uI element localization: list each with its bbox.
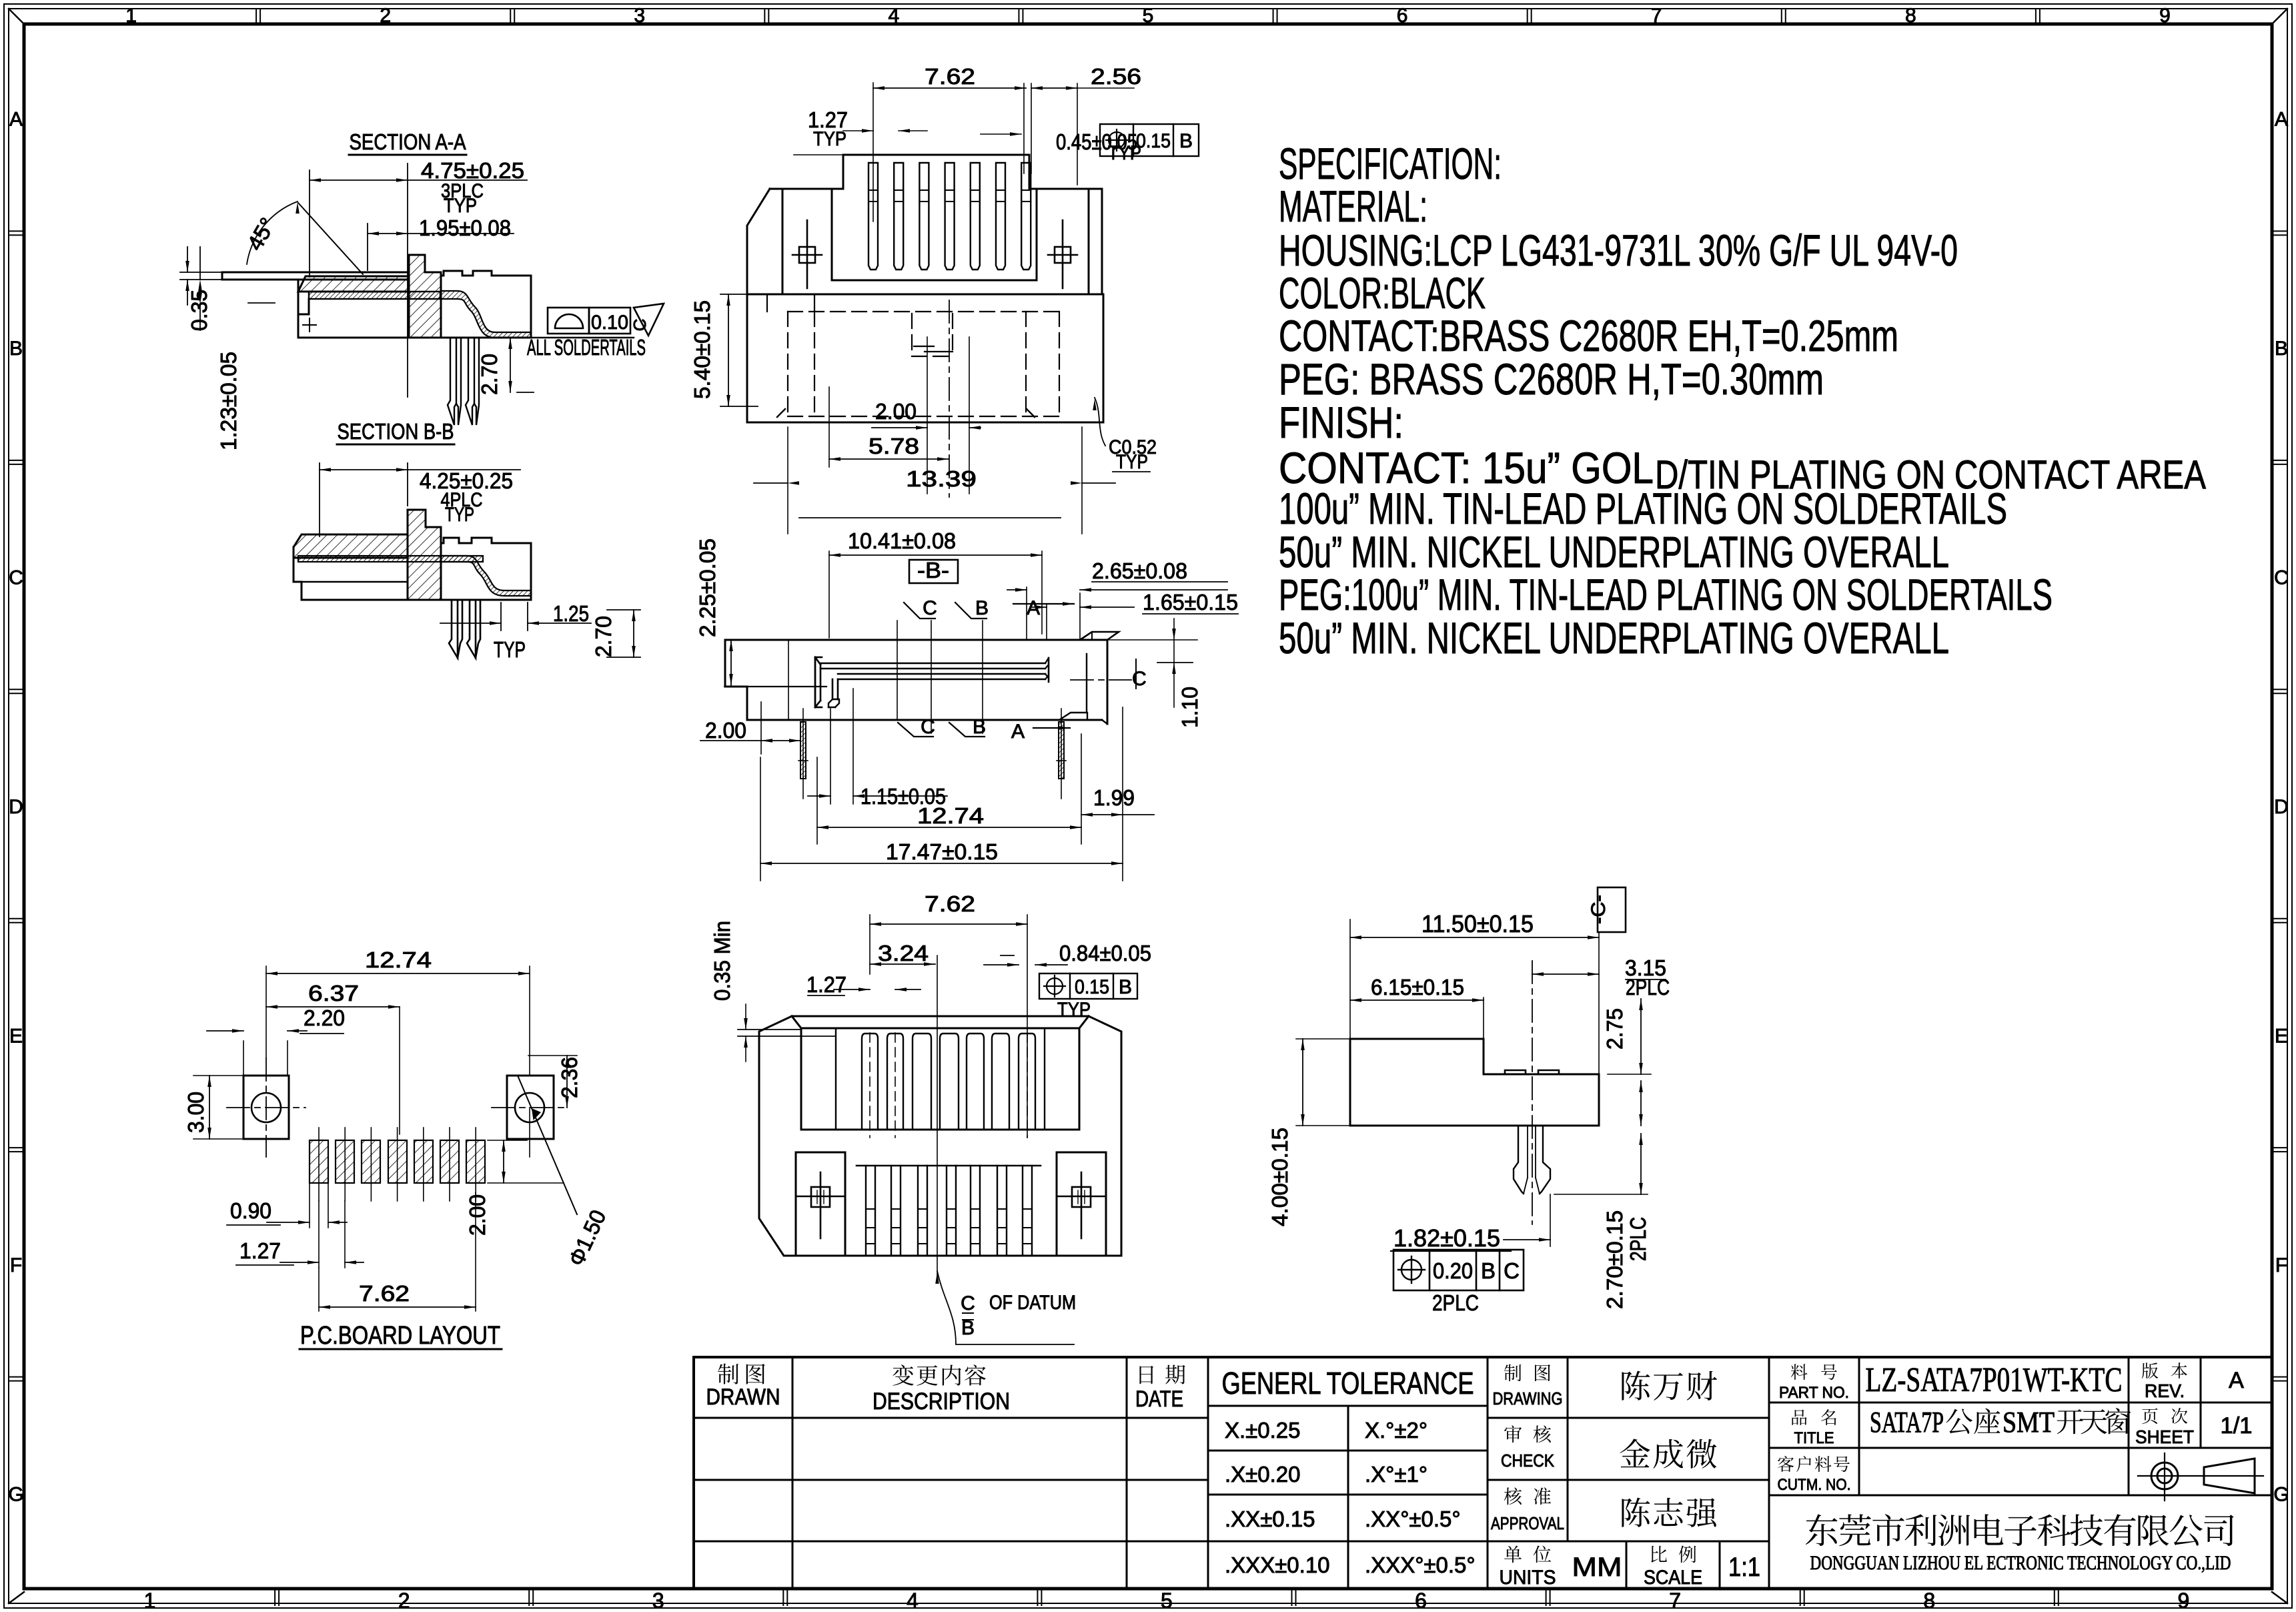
plan tongue upper rail — [820, 663, 1045, 665]
bottom view upper cavity — [800, 1028, 802, 1130]
drawing/check/approval/units labels — [1504, 1364, 1522, 1382]
svg-text:6.15±0.15: 6.15±0.15 — [1371, 975, 1464, 999]
svg-text:6: 6 — [1397, 5, 1408, 27]
svg-text:50u” MIN. NICKEL UNDERPLATI: 50u” MIN. NICKEL UNDERPLATING OVERALL — [1279, 527, 1949, 576]
dim 13.39 — [787, 427, 788, 534]
dim 6.37 — [266, 1006, 400, 1007]
section arrows top — [904, 602, 935, 619]
plan view outline — [725, 639, 1107, 641]
0.35 min lines — [738, 1029, 801, 1030]
dim 10.41 — [828, 551, 830, 638]
svg-text:1:1: 1:1 — [1728, 1553, 1760, 1582]
svg-text:0.15: 0.15 — [1075, 976, 1109, 998]
dim 5.78 — [828, 387, 830, 467]
dim 1.15 — [830, 709, 831, 804]
svg-text:GENERL TOLERANCE: GENERL TOLERANCE — [1222, 1366, 1474, 1400]
dim 0.45 — [981, 133, 1021, 135]
svg-text:B: B — [2275, 338, 2288, 360]
svg-text:C: C — [961, 1292, 975, 1314]
svg-text:10.41±0.08: 10.41±0.08 — [848, 528, 956, 553]
svg-text:.XXX°±0.5°: .XXX°±0.5° — [1365, 1553, 1476, 1577]
dim 7.62 pcb — [475, 1192, 476, 1311]
svg-text:1.65±0.15: 1.65±0.15 — [1143, 590, 1238, 615]
svg-text:0.20: 0.20 — [1433, 1258, 1473, 1283]
svg-text:DESCRIPTION: DESCRIPTION — [873, 1388, 1010, 1415]
svg-text:5.40±0.15: 5.40±0.15 — [690, 300, 714, 399]
svg-text:PEG: BRASS C2680R H,T=0.30m: PEG: BRASS C2680R H,T=0.30mm — [1279, 354, 1824, 404]
svg-text:X.°±2°: X.°±2° — [1365, 1418, 1427, 1443]
dim 0.35 — [180, 272, 222, 273]
dim 2.65 — [1026, 587, 1027, 639]
dim 12.74 plan — [816, 757, 818, 844]
title block outline — [694, 1357, 2272, 1589]
plan top-right bevel — [1080, 632, 1119, 640]
titleblock texts: DRAWN / DESCRIPTION / DATE — [718, 1364, 738, 1384]
svg-text:2.00: 2.00 — [465, 1194, 490, 1236]
svg-text:A: A — [2229, 1368, 2244, 1393]
dim 2.20 — [243, 1041, 244, 1076]
svg-text:6.37: 6.37 — [308, 981, 359, 1005]
svg-text:1.10: 1.10 — [1177, 687, 1202, 728]
side soldertail — [1514, 1126, 1524, 1194]
svg-text:0.35 Min: 0.35 Min — [710, 921, 734, 1001]
svg-text:C: C — [1504, 1258, 1520, 1283]
svg-text:PEG:100u” MIN. TIN-LEAD PLA: PEG:100u” MIN. TIN-LEAD PLATING ON SOLDE… — [1279, 570, 2053, 619]
svg-text:P.C.BOARD LAYOUT: P.C.BOARD LAYOUT — [300, 1322, 500, 1350]
centerline symbol — [1071, 679, 1131, 681]
svg-text:.XXX±0.10: .XXX±0.10 — [1225, 1553, 1330, 1577]
svg-text:50u” MIN. NICKEL UNDERPLATI: 50u” MIN. NICKEL UNDERPLATING OVERALL — [1279, 613, 1949, 663]
side bumps — [1505, 1070, 1526, 1074]
plan tongue left cap — [814, 657, 816, 707]
svg-text:TYP: TYP — [444, 195, 477, 217]
svg-text:E: E — [2275, 1025, 2288, 1047]
svg-text:8: 8 — [1905, 5, 1916, 27]
B-B S-curve contact — [441, 556, 531, 596]
svg-text:2.70: 2.70 — [477, 354, 502, 395]
front view bottom edge — [747, 294, 1102, 296]
dim 45 deg — [298, 203, 363, 274]
plan internal verticals — [788, 640, 789, 720]
svg-text:2.70±0.15: 2.70±0.15 — [1602, 1210, 1627, 1309]
svg-text:APPROVAL: APPROVAL — [1491, 1513, 1564, 1533]
bottom slots — [862, 1034, 878, 1130]
left wing box — [782, 189, 784, 294]
svg-text:D/TIN PLATING ON CONTACT A: D/TIN PLATING ON CONTACT AREA — [1655, 452, 2206, 497]
svg-text:4.00±0.15: 4.00±0.15 — [1267, 1128, 1292, 1226]
dim 3.24 — [870, 963, 935, 965]
svg-text:5: 5 — [1143, 5, 1154, 27]
center dash-dot line — [949, 300, 950, 497]
B-B contact blade hatched — [298, 556, 483, 562]
dim 2.00 plan — [760, 702, 762, 754]
dim 2.00 pcb — [488, 1182, 564, 1184]
dim 1.27 pcb — [318, 1201, 320, 1268]
svg-text:DRAWING: DRAWING — [1493, 1388, 1563, 1408]
dim 2.56 — [1031, 87, 1077, 89]
lower body rect — [747, 294, 1103, 422]
svg-text:4: 4 — [889, 5, 900, 27]
svg-text:2.70: 2.70 — [591, 616, 616, 657]
pcb right hole — [507, 1076, 554, 1139]
svg-text:TITLE: TITLE — [1794, 1429, 1834, 1447]
svg-text:2: 2 — [380, 5, 391, 27]
svg-text:MATERIAL:: MATERIAL: — [1279, 181, 1427, 231]
dim 7.62 bottom — [869, 915, 871, 974]
B-B center key hatched block — [408, 510, 441, 600]
dim 2.75 — [1640, 999, 1642, 1074]
dim 5.40 — [720, 294, 758, 295]
dim 12.74 pcb — [266, 973, 530, 974]
B-B left body hatched top — [294, 534, 408, 558]
svg-text:TYP: TYP — [1116, 451, 1148, 473]
svg-text:1.27: 1.27 — [239, 1238, 281, 1263]
svg-text:SCALE: SCALE — [1644, 1567, 1702, 1589]
svg-text:-C-: -C- — [1588, 895, 1610, 924]
A-A rear wall hatched block — [409, 255, 441, 338]
svg-text:SATA7P: SATA7P — [1870, 1406, 1944, 1439]
right wing box — [1036, 189, 1038, 280]
svg-text:B: B — [1119, 976, 1132, 998]
svg-text:C: C — [921, 716, 935, 738]
A-A contact strip hatched — [309, 292, 440, 299]
svg-text:B: B — [1481, 1258, 1496, 1283]
svg-text:13.39: 13.39 — [906, 466, 977, 491]
dia 1.50 leader — [518, 1076, 577, 1214]
svg-text:4: 4 — [907, 1589, 919, 1612]
B-B right body — [441, 538, 531, 600]
svg-text:UNITS: UNITS — [1500, 1567, 1556, 1589]
front view outline left chamfer — [747, 189, 770, 294]
svg-text:SPECIFICATION:: SPECIFICATION: — [1279, 139, 1502, 188]
bottom view outline — [759, 1016, 1121, 1256]
svg-text:.XX±0.15: .XX±0.15 — [1225, 1507, 1315, 1531]
names — [1622, 1370, 1650, 1400]
svg-text:3.24: 3.24 — [878, 941, 929, 965]
pcb left hole — [243, 1076, 289, 1139]
A-A housing top wall hatched — [298, 276, 408, 292]
svg-text:B: B — [1179, 130, 1193, 152]
dim 7.62 top — [873, 87, 1026, 89]
svg-text:2PLC: 2PLC — [1432, 1290, 1479, 1315]
svg-text:MM: MM — [1572, 1553, 1622, 1582]
svg-text:1: 1 — [125, 5, 137, 27]
right vertical chain for 2.70/2.75 — [1640, 1081, 1642, 1126]
pins front — [869, 163, 878, 270]
svg-text:G: G — [2273, 1483, 2289, 1505]
dim 3.00 — [193, 1075, 243, 1076]
svg-text:A: A — [2275, 109, 2288, 131]
dim 11.50 — [1349, 919, 1351, 1039]
svg-text:6: 6 — [1415, 1589, 1427, 1612]
svg-text:2PLC: 2PLC — [1626, 975, 1670, 999]
tolerance grid — [1487, 1357, 1489, 1589]
dim 1.65 — [1046, 604, 1047, 639]
svg-text:11.50±0.15: 11.50±0.15 — [1421, 910, 1534, 937]
side centerline — [1532, 961, 1533, 1224]
svg-text:7: 7 — [1651, 5, 1662, 27]
C0.52 TYP leader — [1095, 398, 1105, 446]
svg-text:9: 9 — [2177, 1589, 2189, 1612]
third angle projection symbol — [2157, 1469, 2172, 1483]
svg-text:3: 3 — [652, 1589, 664, 1612]
svg-text:1.95±0.08: 1.95±0.08 — [419, 216, 511, 240]
svg-text:-B-: -B- — [917, 558, 949, 582]
svg-text:5.78: 5.78 — [869, 434, 919, 458]
svg-text:A: A — [1011, 721, 1025, 743]
dim 1.10 — [1107, 639, 1197, 641]
A-A right body outline — [441, 271, 531, 338]
dim 4.75 — [309, 170, 310, 277]
corner chamfer ticks — [777, 409, 785, 417]
svg-text:A: A — [9, 109, 23, 131]
small dashed latch box — [911, 314, 913, 356]
ext lines above — [873, 83, 874, 222]
svg-text:12.74: 12.74 — [917, 803, 984, 828]
svg-text:SECTION A-A: SECTION A-A — [350, 129, 466, 154]
svg-text:5: 5 — [1161, 1589, 1173, 1612]
svg-text:2.20: 2.20 — [304, 1005, 345, 1030]
svg-text:0.90: 0.90 — [230, 1198, 271, 1223]
dim 17.47 — [760, 757, 761, 881]
plan pins — [800, 722, 806, 779]
svg-text:TYP: TYP — [445, 504, 474, 526]
svg-text:2.00: 2.00 — [875, 399, 917, 424]
dim 1.25 — [500, 602, 502, 631]
svg-text:C: C — [1132, 668, 1147, 690]
dim 6.15 — [1483, 997, 1484, 1039]
pcb pads — [310, 1140, 328, 1183]
dim 1.95 — [367, 224, 368, 270]
svg-text:7.62: 7.62 — [925, 64, 975, 89]
part no / title / cutm labels — [1791, 1364, 1807, 1380]
dim 4.00 — [1296, 1038, 1350, 1040]
svg-text:CONTACT:BRASS C2680R EH,T=0.: CONTACT:BRASS C2680R EH,T=0.25mm — [1279, 311, 1898, 360]
svg-text:45°: 45° — [242, 214, 280, 255]
bottom centerline — [937, 955, 938, 1278]
svg-text:.X±0.20: .X±0.20 — [1225, 1462, 1301, 1487]
profile tolerance boxes — [548, 308, 589, 334]
svg-text:TYP: TYP — [813, 128, 846, 150]
svg-text:E: E — [9, 1025, 23, 1047]
position tolerance box top — [1100, 124, 1199, 156]
svg-text:0.10: 0.10 — [591, 312, 628, 334]
lower body internal dashed — [788, 311, 1059, 312]
svg-text:CHECK: CHECK — [1501, 1451, 1555, 1471]
svg-text:1.27: 1.27 — [806, 972, 846, 997]
svg-text:9: 9 — [2159, 5, 2171, 27]
svg-text:B: B — [9, 338, 23, 360]
svg-text:Φ1.50: Φ1.50 — [564, 1206, 611, 1270]
svg-text:REV.: REV. — [2145, 1380, 2185, 1401]
section cut verticals — [931, 621, 932, 733]
plan tongue left step foot — [832, 679, 834, 699]
svg-text:TYP: TYP — [494, 637, 526, 662]
svg-text:1: 1 — [144, 1589, 156, 1612]
title block columns left — [792, 1357, 794, 1589]
svg-text:SECTION B-B: SECTION B-B — [338, 419, 454, 444]
section arrows bottom — [898, 723, 933, 737]
svg-text:2.56: 2.56 — [1091, 64, 1141, 89]
svg-text:TYP: TYP — [1108, 142, 1141, 164]
svg-text:C: C — [9, 567, 23, 589]
svg-text:D: D — [2274, 796, 2289, 818]
svg-text:CUTM. NO.: CUTM. NO. — [1778, 1476, 1851, 1494]
svg-text:DONGGUAN LIZHOU EL ECTRONIC TE: DONGGUAN LIZHOU EL ECTRONIC TECHNOLOGY C… — [1810, 1552, 2231, 1574]
svg-text:7.62: 7.62 — [925, 891, 975, 916]
svg-text:1.25: 1.25 — [553, 601, 589, 626]
middle label/name columns — [1567, 1357, 1569, 1541]
svg-text:PART NO.: PART NO. — [1779, 1384, 1849, 1402]
dim 2.70 B-B — [633, 610, 634, 657]
svg-text:HOUSING:LCP LG431-9731L 30%: HOUSING:LCP LG431-9731L 30% G/F UL 94V-0 — [1279, 226, 1958, 275]
svg-text:B: B — [975, 597, 989, 619]
svg-text:CONTACT: 15u” GOL: CONTACT: 15u” GOL — [1279, 443, 1654, 492]
svg-text:TYP: TYP — [1057, 999, 1091, 1021]
svg-text:2.25±0.05: 2.25±0.05 — [695, 538, 720, 637]
svg-text:.XX°±0.5°: .XX°±0.5° — [1365, 1507, 1461, 1531]
svg-text:17.47±0.15: 17.47±0.15 — [886, 839, 998, 864]
svg-text:SHEET: SHEET — [2135, 1427, 2194, 1447]
svg-text:2.65±0.08: 2.65±0.08 — [1092, 558, 1187, 583]
svg-text:OF DATUM: OF DATUM — [989, 1292, 1076, 1314]
zone ticks — [255, 9, 257, 24]
position tolerance box bottom — [1039, 973, 1137, 999]
plan tongue lower rail — [838, 673, 1045, 675]
svg-text:3.00: 3.00 — [183, 1092, 208, 1133]
C OF DATUM leader — [937, 1271, 1074, 1344]
datum B box — [909, 560, 958, 583]
dim 4.25 — [319, 463, 320, 536]
datum C box — [1598, 887, 1626, 932]
svg-text:FINISH:: FINISH: — [1279, 398, 1403, 447]
A-A S-curve contact hatched — [441, 291, 531, 338]
svg-text:1/1: 1/1 — [2221, 1413, 2253, 1439]
svg-text:2.00: 2.00 — [705, 718, 746, 743]
front view top edges — [770, 188, 843, 190]
tower sides — [842, 155, 844, 189]
datum flag C — [634, 304, 664, 336]
svg-text:C: C — [2274, 567, 2289, 589]
svg-text:1.82±0.15: 1.82±0.15 — [1393, 1224, 1500, 1252]
dim 2.00 front — [927, 337, 928, 494]
A-A body: contact blade — [222, 272, 408, 274]
dim 2.36 — [528, 1055, 577, 1056]
position tolerance box side — [1393, 1250, 1524, 1290]
pcb ext lines tall — [265, 966, 267, 1058]
svg-text:D: D — [9, 796, 23, 818]
svg-text:4.75±0.25: 4.75±0.25 — [421, 158, 524, 183]
svg-text:1.99: 1.99 — [1093, 785, 1135, 810]
side view outline — [1350, 1039, 1599, 1126]
svg-text:SMT: SMT — [2002, 1406, 2055, 1439]
svg-text:C: C — [630, 319, 650, 332]
svg-text:ALL SOLDERTAILS: ALL SOLDERTAILS — [527, 335, 646, 360]
bottom soldertails — [856, 1165, 1041, 1167]
svg-text:3: 3 — [634, 5, 645, 27]
svg-text:B: B — [973, 716, 986, 738]
wing peg crosses — [806, 220, 808, 288]
svg-text:2: 2 — [398, 1589, 410, 1612]
dim 1.23 — [199, 247, 201, 280]
B-B pins — [449, 600, 458, 658]
dim 2.25 — [724, 686, 745, 687]
svg-text:X.±0.25: X.±0.25 — [1225, 1418, 1301, 1443]
svg-text:7.62: 7.62 — [359, 1281, 410, 1306]
svg-text:G: G — [8, 1483, 23, 1505]
B-B left body outline — [294, 547, 408, 600]
svg-text:.X°±1°: .X°±1° — [1365, 1462, 1427, 1487]
svg-text:COLOR:BLACK: COLOR:BLACK — [1279, 268, 1486, 318]
svg-text:LZ-SATA7P01WT-KTC: LZ-SATA7P01WT-KTC — [1866, 1361, 2123, 1399]
svg-text:12.74: 12.74 — [365, 947, 432, 972]
A-A housing lower-left outline — [298, 299, 408, 338]
svg-text:0.84±0.05: 0.84±0.05 — [1059, 941, 1151, 965]
svg-text:F: F — [10, 1254, 22, 1276]
bottom mount pads — [796, 1152, 845, 1256]
dim 2.70 — [1554, 1194, 1648, 1195]
company name — [1806, 1514, 1838, 1546]
svg-text:8: 8 — [1923, 1589, 1935, 1612]
svg-text:2PLC: 2PLC — [1626, 1217, 1650, 1261]
right part grid — [1858, 1357, 1860, 1495]
svg-text:2.75: 2.75 — [1602, 1008, 1627, 1050]
svg-text:DATE: DATE — [1135, 1386, 1183, 1412]
dim 2.70 A-A — [510, 338, 511, 392]
rev / sheet — [2142, 1362, 2159, 1378]
svg-text:7: 7 — [1669, 1589, 1681, 1612]
svg-text:1.23±0.05: 1.23±0.05 — [216, 352, 241, 450]
dim 3.15 — [1532, 973, 1599, 975]
corner diagonals — [9, 9, 24, 24]
A-A soldertail pins — [448, 338, 456, 425]
dim 0.90 — [309, 1183, 310, 1228]
svg-text:DRAWN: DRAWN — [706, 1384, 780, 1410]
svg-text:C: C — [923, 597, 937, 619]
svg-text:F: F — [2275, 1254, 2287, 1276]
svg-text:2.36: 2.36 — [557, 1057, 582, 1098]
plan bottom-right step — [1059, 713, 1087, 720]
